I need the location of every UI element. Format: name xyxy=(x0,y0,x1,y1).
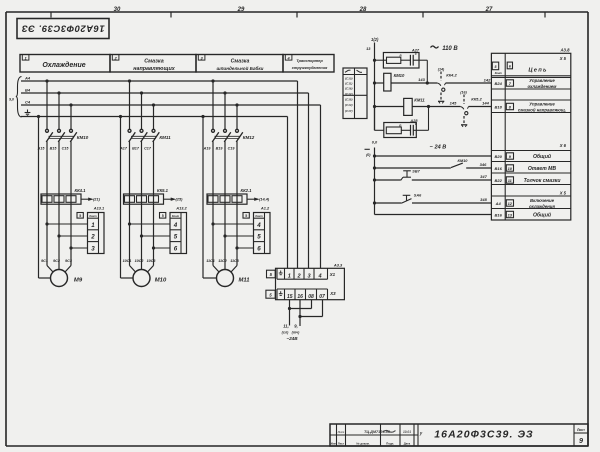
svg-text:144: 144 xyxy=(482,100,489,105)
svg-text:142: 142 xyxy=(484,78,491,83)
svg-text:10С1: 10С1 xyxy=(123,259,132,263)
svg-text:5: 5 xyxy=(162,214,164,218)
svg-text:№ докум.: № докум. xyxy=(356,441,369,445)
RC suppressor A28 xyxy=(375,107,429,138)
motor leads 9С1 9С2 9С3 xyxy=(41,194,73,272)
svg-text:А4: А4 xyxy=(495,201,502,206)
ground wire to motor М10 xyxy=(119,115,133,278)
svg-text:11: 11 xyxy=(508,178,512,183)
svg-text:2: 2 xyxy=(113,55,117,60)
svg-text:(21): (21) xyxy=(93,197,101,202)
svg-text:08: 08 xyxy=(308,294,314,300)
svg-text:(25): (25) xyxy=(176,197,184,202)
svg-text:SВ7: SВ7 xyxy=(412,170,420,174)
RC suppressor A27 xyxy=(373,48,427,84)
svg-text:КМ10: КМ10 xyxy=(394,73,405,78)
svg-text:А3.8: А3.8 xyxy=(559,47,570,52)
svg-text:9: 9 xyxy=(509,154,512,159)
svg-text:Включение: Включение xyxy=(530,198,555,203)
svg-text:Х 5: Х 5 xyxy=(559,190,567,195)
svg-text:М10: М10 xyxy=(155,277,167,283)
svg-text:1: 1 xyxy=(91,222,95,229)
svg-text:347: 347 xyxy=(480,174,487,179)
wire 145 from coil KM11 to KK5.2 xyxy=(412,100,460,108)
svg-text:В22: В22 xyxy=(495,178,503,183)
svg-text:В24: В24 xyxy=(495,81,503,86)
wire ground bus drop to terminal X1 xyxy=(287,117,289,269)
svg-text:Х 5: Х 5 xyxy=(559,56,567,61)
wire row 9 Общий xyxy=(373,154,492,157)
motor leads 10С1 10С2 10С3 xyxy=(123,194,157,272)
svg-text:9: 9 xyxy=(579,436,583,445)
terminal block А1.2 xyxy=(243,205,270,253)
-24V rail with node 0,0 xyxy=(365,140,379,215)
svg-text:Конт: Конт xyxy=(172,214,180,218)
connector table row pin 11 Толчок смазки xyxy=(491,173,570,185)
contactor КМ12 main contacts xyxy=(212,129,255,142)
terminal block А13.2 xyxy=(160,205,188,253)
zone number 29 xyxy=(237,7,245,13)
svg-text:7: 7 xyxy=(509,81,512,86)
svg-text:КК4.1: КК4.1 xyxy=(75,188,87,193)
terminal strip block А3.3 outer box xyxy=(276,262,345,299)
auxiliary contact KM10 on row 10 xyxy=(373,158,492,170)
svg-text:В18: В18 xyxy=(495,105,503,110)
svg-text:Изм: Изм xyxy=(331,441,336,445)
svg-text:В20: В20 xyxy=(495,154,503,159)
svg-text:(тч): (тч) xyxy=(292,331,300,335)
svg-text:4: 4 xyxy=(256,222,261,229)
svg-text:Ответ МВ: Ответ МВ xyxy=(528,166,556,172)
svg-text:(16): (16) xyxy=(460,90,467,94)
svg-text:(С17): (С17) xyxy=(345,109,353,113)
connector table А3.8 outer box xyxy=(491,47,570,220)
svg-text:Охлаждение: Охлаждение xyxy=(42,61,85,69)
bus A4 xyxy=(21,75,298,81)
thermal relay КК2.1 heaters xyxy=(207,188,252,204)
wire 144 to terminal B18 xyxy=(469,100,492,106)
thermal relay КК4.1 heaters xyxy=(41,188,86,204)
svg-text:9С1: 9С1 xyxy=(41,259,48,263)
svg-text:27: 27 xyxy=(485,7,493,13)
svg-text:направляющих: направляющих xyxy=(133,66,176,72)
svg-text:Общий: Общий xyxy=(533,212,552,219)
connector group label X5 lower xyxy=(559,190,567,195)
svg-text:Конт: Конт xyxy=(255,214,263,218)
svg-text:Цепь: Цепь xyxy=(528,68,547,74)
title block sheet number Лист 9 xyxy=(574,424,588,446)
contactor КМ11 main contacts xyxy=(128,129,171,142)
svg-text:С17: С17 xyxy=(144,146,152,150)
svg-text:(С10): (С10) xyxy=(345,76,353,80)
svg-text:Подп.: Подп. xyxy=(386,441,394,445)
wire taps from buses to contactor КМ10 xyxy=(45,79,72,129)
svg-text:В17: В17 xyxy=(132,146,140,150)
svg-text:стружкоудаления: стружкоудаления xyxy=(292,65,328,70)
svg-text:В15: В15 xyxy=(50,146,58,150)
svg-text:348: 348 xyxy=(480,197,487,202)
ground bus xyxy=(21,116,288,118)
zone number 28 xyxy=(359,7,367,13)
bus B4 xyxy=(21,87,309,93)
svg-text:11С1: 11С1 xyxy=(206,259,215,263)
zone tick marks on top border xyxy=(51,12,545,18)
node 1(2) supply entry 110V xyxy=(366,37,379,130)
connector table row pin 9 Общий xyxy=(491,151,570,162)
function box 3 Смазка шпиндельной бабки xyxy=(196,55,283,73)
svg-text:1: 1 xyxy=(288,274,291,280)
label ~110 V xyxy=(431,46,459,52)
svg-text:4: 4 xyxy=(173,222,178,229)
svg-text:В4: В4 xyxy=(25,87,31,92)
shield box 5 of X1 xyxy=(267,270,276,278)
svg-text:5: 5 xyxy=(270,272,273,277)
svg-text:1: 1 xyxy=(24,55,27,60)
wire taps from buses to contactor КМ11 xyxy=(128,79,155,129)
svg-text:Управление: Управление xyxy=(529,102,555,107)
svg-text:5: 5 xyxy=(174,234,178,241)
zone number 30 xyxy=(114,7,121,13)
svg-text:КМ10: КМ10 xyxy=(458,158,469,163)
wires from phases into terminal А13.1 xyxy=(45,222,87,249)
connector table row pin 12 Включение xyxy=(491,196,570,209)
svg-text:11С3: 11С3 xyxy=(230,259,239,263)
wire 143 from coil KM10 to KK4.2 xyxy=(391,77,437,85)
svg-text:смазкой направляющ.: смазкой направляющ. xyxy=(518,107,566,112)
wire bus B4 drop to terminal X1 xyxy=(308,93,310,268)
svg-text:(С13): (С13) xyxy=(345,103,353,107)
svg-text:5: 5 xyxy=(79,214,81,218)
svg-text:М9: М9 xyxy=(74,277,83,283)
svg-text:Х3: Х3 xyxy=(329,291,336,296)
terminal block А13.1 xyxy=(77,205,104,253)
svg-text:28: 28 xyxy=(359,7,367,13)
svg-text:0,0: 0,0 xyxy=(372,140,378,145)
thermal relay КК5.1 heaters xyxy=(124,188,169,204)
contactor КМ10 main contacts xyxy=(46,129,89,142)
svg-text:(С18): (С18) xyxy=(345,98,353,102)
svg-text:13: 13 xyxy=(508,212,513,217)
svg-text:А19: А19 xyxy=(203,146,212,150)
svg-text:− 24 В: − 24 В xyxy=(430,145,447,151)
svg-text:110 В: 110 В xyxy=(442,46,458,52)
svg-text:В16: В16 xyxy=(495,213,503,218)
svg-text:(С11): (С11) xyxy=(345,82,353,86)
svg-text:346: 346 xyxy=(480,162,487,167)
svg-text:А1.2: А1.2 xyxy=(260,205,270,210)
motor М10 xyxy=(133,270,167,287)
svg-text:(14,4): (14,4) xyxy=(259,197,270,202)
motor leads 11С1 11С2 11С3 xyxy=(206,194,239,272)
connector table row pin 13 Общий xyxy=(491,209,570,221)
wires А17 В17 С17 below contactor xyxy=(119,142,153,195)
svg-text:13: 13 xyxy=(366,46,371,51)
svg-text:Лист: Лист xyxy=(577,428,585,432)
svg-text:Лист: Лист xyxy=(337,431,345,434)
svg-text:(14): (14) xyxy=(438,67,445,71)
svg-text:10С3: 10С3 xyxy=(147,259,157,263)
svg-text:Лист: Лист xyxy=(338,441,345,445)
connector X3 terminal row xyxy=(277,289,336,300)
svg-text:10С2: 10С2 xyxy=(135,259,145,263)
svg-text:А13.2: А13.2 xyxy=(175,205,187,210)
svg-text:М11: М11 xyxy=(238,277,249,283)
contactor coil KM11 xyxy=(373,98,425,116)
svg-text:(сл): (сл) xyxy=(282,331,289,335)
cross-reference arrow to (25) xyxy=(164,197,184,202)
svg-text:29: 29 xyxy=(237,7,245,13)
svg-text:Смазка: Смазка xyxy=(144,59,163,65)
svg-text:10: 10 xyxy=(508,166,513,171)
ground wire to motor М9 xyxy=(37,115,51,278)
svg-text:КМ12: КМ12 xyxy=(243,135,255,140)
zone number 27 xyxy=(485,7,493,13)
svg-text:12: 12 xyxy=(508,201,513,206)
svg-text:КК5.1: КК5.1 xyxy=(157,188,169,193)
wire taps from buses to contactor КМ12 xyxy=(211,79,238,129)
wires below X3 to -24V supply xyxy=(288,300,323,326)
ground wire to motor М11 xyxy=(201,115,216,278)
svg-text:шпиндельной Бабки: шпиндельной Бабки xyxy=(217,65,264,71)
svg-text:Конт: Конт xyxy=(495,71,503,75)
svg-text:А4: А4 xyxy=(24,75,31,80)
thermal contact KK4.2 xyxy=(437,67,457,103)
svg-text:Толчок смазки: Толчок смазки xyxy=(524,178,562,184)
svg-text:5: 5 xyxy=(269,292,272,297)
svg-text:А13.1: А13.1 xyxy=(93,205,104,210)
svg-text:Смазка: Смазка xyxy=(231,59,250,65)
svg-text:(0): (0) xyxy=(366,153,371,157)
svg-text:КМ10: КМ10 xyxy=(77,135,89,140)
svg-text:6: 6 xyxy=(174,245,178,252)
title block document number cell xyxy=(434,429,534,441)
wires А15 В15 С15 below contactor xyxy=(37,142,71,195)
svg-text:Х 6: Х 6 xyxy=(559,143,567,148)
svg-text:10.01: 10.01 xyxy=(403,430,411,434)
svg-text:Дата: Дата xyxy=(404,441,411,445)
svg-text:SА6: SА6 xyxy=(414,193,422,197)
rotated document number box 16А20Ф3С39.ЭЗ (top-left stamp) xyxy=(17,19,109,39)
svg-text:КК4.2: КК4.2 xyxy=(446,72,457,77)
svg-text:С4: С4 xyxy=(25,99,31,104)
svg-text:9,: 9, xyxy=(294,324,298,329)
wire 142 to terminal B24 xyxy=(446,78,492,83)
connector table row pin 8 Управление xyxy=(491,100,570,113)
wires from phases into terminal А1.2 xyxy=(211,222,253,249)
svg-text:у: у xyxy=(419,431,423,436)
svg-text:КК5.2: КК5.2 xyxy=(471,96,482,101)
svg-text:8: 8 xyxy=(509,104,512,109)
motor М11 xyxy=(217,270,250,287)
node labels 11 and 9 with refs xyxy=(282,324,300,341)
push button SB7 on row 11 xyxy=(373,170,492,182)
svg-text:9С3: 9С3 xyxy=(65,259,73,263)
svg-text:−24В: −24В xyxy=(286,336,298,341)
motor М9 xyxy=(51,270,83,287)
svg-text:15: 15 xyxy=(287,294,293,300)
title block (основная надпись) xyxy=(330,424,588,446)
brace for incoming supply lines xyxy=(9,77,21,118)
svg-text:3: 3 xyxy=(200,55,203,60)
function box 2 Смазка направляющих xyxy=(110,55,196,73)
svg-text:9,0: 9,0 xyxy=(9,98,14,102)
svg-text:А3.3: А3.3 xyxy=(333,262,343,267)
function box 1 Охлаждение xyxy=(20,55,110,73)
bus C4 xyxy=(21,99,321,105)
svg-text:9С2: 9С2 xyxy=(53,259,61,263)
thermal contact KK5.2 xyxy=(460,90,482,127)
svg-text:охлаждением: охлаждением xyxy=(528,84,558,89)
svg-text:Транспортер: Транспортер xyxy=(296,58,323,63)
svg-text:КМ11: КМ11 xyxy=(159,135,171,140)
cross-reference arrow to (21) xyxy=(81,197,101,202)
svg-text:07: 07 xyxy=(319,294,325,300)
svg-text:В19: В19 xyxy=(216,146,224,150)
svg-text:16: 16 xyxy=(297,294,303,300)
svg-text:Общий: Общий xyxy=(533,153,552,160)
connector group label X6 xyxy=(559,143,567,148)
svg-text:(С12): (С12) xyxy=(345,92,353,96)
shield box 5 of X3 xyxy=(266,290,275,298)
svg-text:16А20Ф3С39. ЭЗ: 16А20Ф3С39. ЭЗ xyxy=(434,429,534,441)
svg-text:Х1: Х1 xyxy=(329,272,336,277)
svg-text:6: 6 xyxy=(257,245,261,252)
svg-text:5: 5 xyxy=(257,234,261,241)
svg-text:5: 5 xyxy=(495,65,498,69)
svg-text:В16: В16 xyxy=(495,166,503,171)
connector table header Конт/Цепь xyxy=(491,62,570,76)
connector X1 terminal row xyxy=(277,268,336,279)
switch SA6 on row 12 xyxy=(373,193,492,204)
svg-text:5: 5 xyxy=(245,214,247,218)
svg-text:Управление: Управление xyxy=(529,78,555,83)
svg-text:145: 145 xyxy=(450,100,457,105)
svg-text:Конт: Конт xyxy=(89,214,97,218)
ground symbol on ground bus xyxy=(25,110,31,116)
svg-text:143: 143 xyxy=(418,77,425,82)
cross-reference arrow to (14,4) xyxy=(247,197,270,202)
svg-text:КК2.1: КК2.1 xyxy=(241,188,253,193)
function box 4 Транспортер стружкоудаления xyxy=(283,55,334,73)
wire row 13 Общий xyxy=(375,214,492,216)
connector table row pin 7 Управление xyxy=(491,78,570,90)
svg-text:2: 2 xyxy=(90,234,95,241)
svg-text:С19: С19 xyxy=(228,146,236,150)
svg-text:С15: С15 xyxy=(62,146,70,150)
svg-text:(С16): (С16) xyxy=(345,87,353,91)
contact cross-reference table xyxy=(343,68,367,119)
svg-text:11,: 11, xyxy=(283,324,289,329)
svg-text:6: 6 xyxy=(509,64,512,68)
wire bus C4 drop to terminal X1 xyxy=(320,105,322,268)
contactor coil KM10 xyxy=(373,73,405,91)
svg-text:КМ11: КМ11 xyxy=(414,98,425,103)
wires А19 В19 С19 below contactor xyxy=(203,142,237,195)
label -24 V xyxy=(430,145,447,151)
wire bus A4 drop to terminal X1 xyxy=(297,81,299,268)
svg-text:30: 30 xyxy=(114,7,121,13)
svg-text:3: 3 xyxy=(91,245,95,252)
wires from phases into terminal А13.2 xyxy=(128,222,170,249)
svg-text:R: R xyxy=(399,53,402,57)
svg-text:1(2): 1(2) xyxy=(371,37,379,42)
svg-text:16А20Ф3С39. ЭЗ: 16А20Ф3С39. ЭЗ xyxy=(21,23,105,34)
svg-text:11С2: 11С2 xyxy=(218,259,227,263)
connector table row pin 10 Ответ МВ xyxy=(491,162,570,174)
